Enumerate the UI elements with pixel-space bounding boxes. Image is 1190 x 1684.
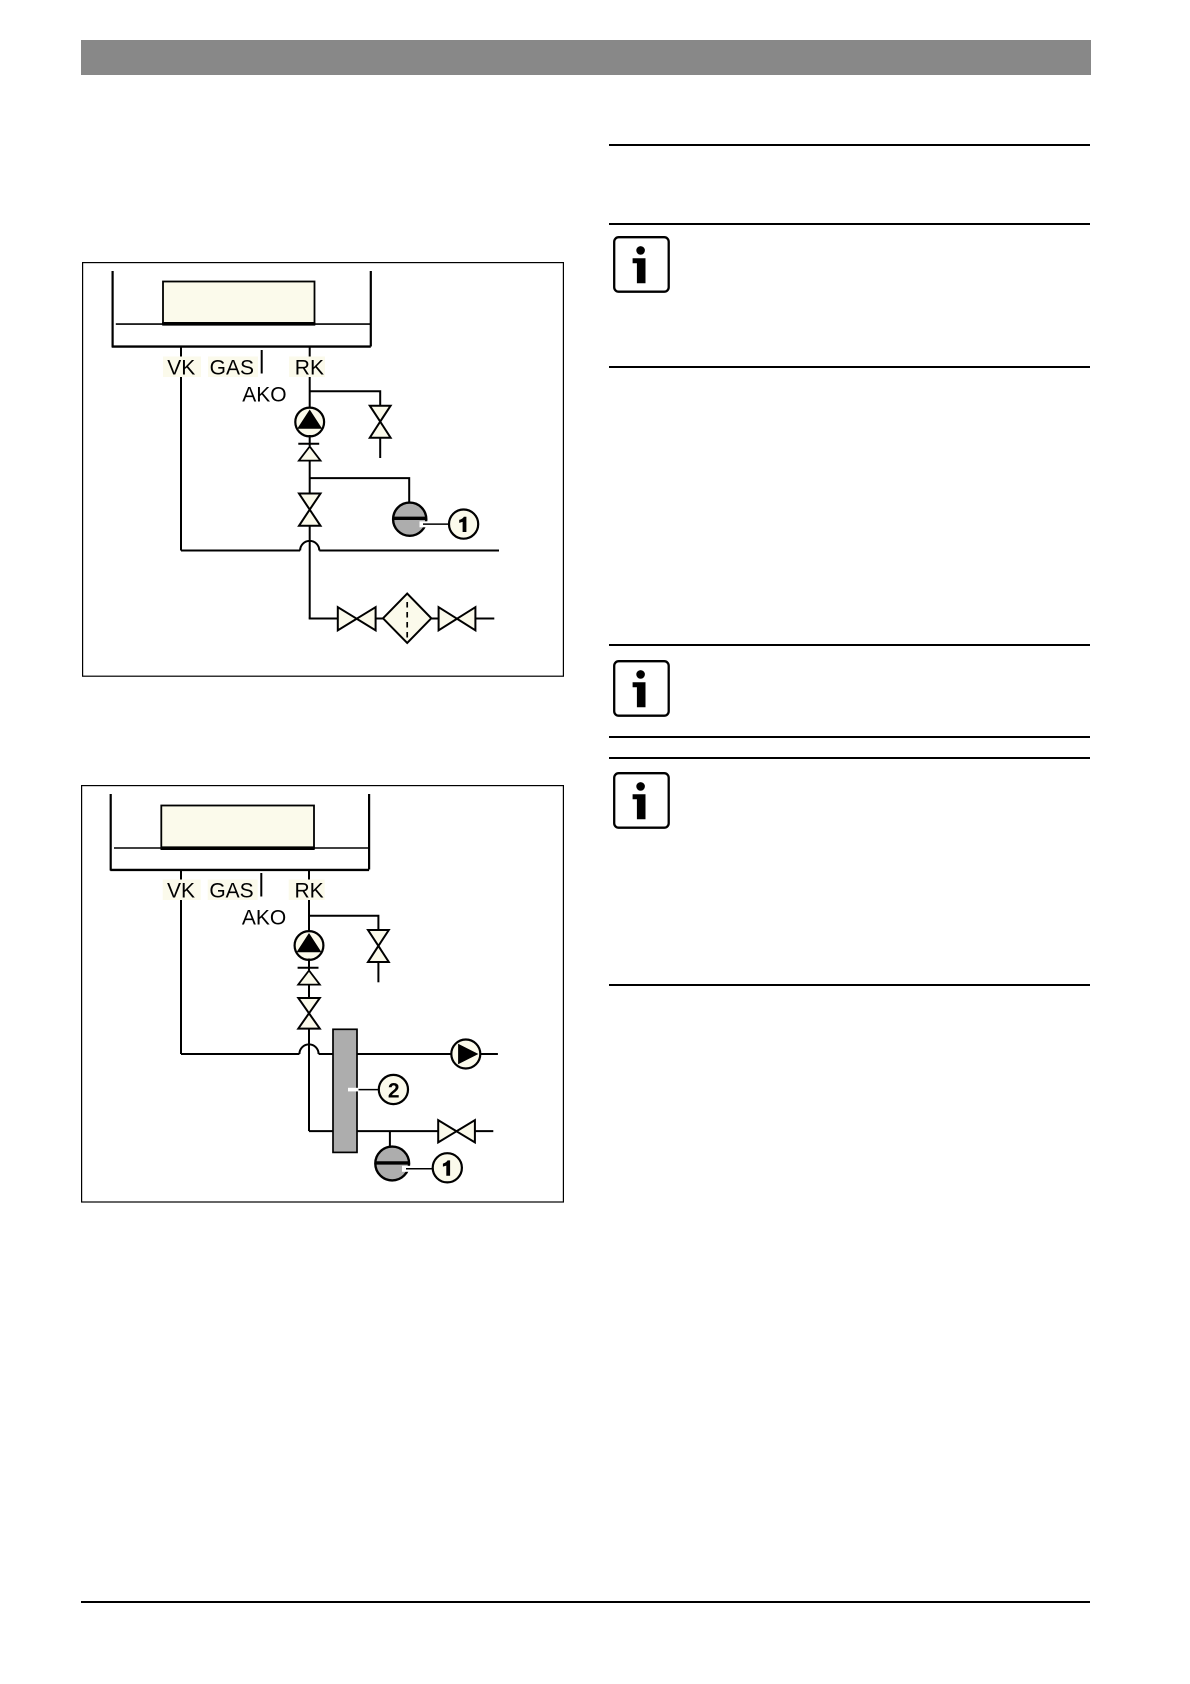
check valve seat	[298, 443, 319, 445]
wire	[431, 618, 438, 620]
valve gas shutoff left	[338, 607, 357, 630]
figure frame	[83, 263, 564, 677]
right column rule 2	[609, 223, 1091, 225]
check valve seat	[298, 967, 319, 969]
figure frame	[82, 786, 564, 1202]
leader white notch	[420, 521, 430, 527]
valve gate RK	[299, 494, 321, 510]
wire header top line left	[181, 1053, 299, 1055]
right column rule 4	[609, 644, 1091, 646]
low-loss header	[333, 1029, 357, 1152]
svg-text:2: 2	[388, 1079, 400, 1102]
pump circulation	[295, 931, 324, 960]
burner block thick base	[161, 846, 315, 850]
svg-text:AKO: AKO	[242, 384, 286, 407]
wire RK pipe middle	[308, 985, 310, 999]
valve bypass (maintenance valve)	[370, 406, 391, 422]
right column rule 6	[609, 757, 1091, 759]
valve heating return	[438, 1120, 456, 1142]
gas filter	[383, 594, 431, 643]
label RK	[289, 357, 325, 378]
burner block	[161, 806, 314, 849]
svg-text:GAS: GAS	[210, 356, 254, 379]
pump circulation	[295, 408, 324, 437]
leader to 1	[423, 523, 450, 525]
diagram 1: boiler with gas line	[82, 262, 564, 677]
label GAS	[208, 357, 258, 378]
right column rule 5	[609, 736, 1091, 738]
boiler right wall	[370, 271, 372, 347]
node GAS stub	[260, 873, 262, 897]
svg-text:GAS: GAS	[209, 879, 253, 902]
wire to pump	[357, 1053, 452, 1055]
check valve	[299, 447, 321, 461]
wire	[475, 618, 494, 620]
wire VK pipe down	[180, 869, 182, 1054]
boiler left wall	[110, 794, 112, 871]
wire expansion branch	[310, 478, 410, 503]
valve bypass (maintenance valve)	[368, 930, 389, 946]
wire RK pipe lower	[309, 526, 311, 619]
leader white notch 2	[348, 1088, 359, 1092]
boiler plate top line	[116, 323, 371, 325]
label GAS	[208, 880, 258, 901]
check valve	[298, 971, 320, 985]
svg-text:VK: VK	[167, 879, 195, 902]
svg-text:RK: RK	[295, 356, 324, 379]
boiler right wall	[368, 794, 370, 870]
wire pump to seat	[308, 959, 310, 971]
diagram 2: boiler with low-loss header	[81, 785, 564, 1203]
wire header bottom line mid	[357, 1130, 438, 1132]
wire bypass stub	[379, 438, 381, 458]
wire RK pipe upper	[309, 346, 311, 409]
boiler plate bottom line	[110, 869, 369, 871]
expansion vessel	[375, 1147, 409, 1181]
wire RK pipe lower	[308, 1029, 310, 1132]
wire RK pipe middle	[309, 461, 311, 494]
wire crossing hop	[299, 1044, 318, 1054]
pump heating circuit	[451, 1040, 480, 1069]
label VK	[163, 880, 201, 901]
header gray bar	[81, 40, 1091, 75]
wire vessel stub	[389, 1131, 391, 1147]
leader to 2	[359, 1089, 381, 1091]
svg-text:RK: RK	[295, 879, 324, 902]
right column rule 1	[609, 144, 1091, 146]
boiler left wall	[111, 271, 113, 348]
burner block	[163, 282, 315, 324]
callout 1	[433, 1153, 462, 1182]
label VK	[163, 357, 201, 378]
wire main horizontal left	[181, 550, 300, 552]
wire	[376, 618, 383, 620]
svg-text:VK: VK	[167, 356, 195, 379]
info icon 2	[613, 660, 670, 717]
info icon 3	[613, 772, 670, 829]
node GAS stub	[261, 350, 263, 374]
callout 2	[379, 1075, 408, 1104]
right column rule 3	[609, 366, 1091, 368]
leader to 1	[406, 1168, 434, 1170]
right column rule 7	[609, 984, 1091, 986]
leader white notch	[402, 1166, 412, 1172]
svg-text:AKO: AKO	[242, 907, 286, 930]
valve gas shutoff right	[439, 607, 457, 630]
boiler plate top line	[114, 847, 369, 849]
wire gas line horizontal	[309, 618, 338, 620]
expansion vessel	[393, 503, 426, 536]
wire	[480, 1053, 498, 1055]
callout 1	[449, 510, 478, 539]
wire VK pipe down	[180, 346, 182, 551]
bottom page rule	[81, 1601, 1090, 1603]
valve gate RK	[298, 998, 320, 1013]
wire pump to seat	[309, 435, 311, 446]
info icon 1	[613, 236, 670, 293]
wire crossing hop	[300, 541, 319, 551]
burner block thick base	[162, 322, 315, 326]
label RK	[289, 880, 325, 901]
wire	[475, 1130, 493, 1132]
wire header bottom line left	[309, 1130, 333, 1132]
wire bypass branch	[309, 916, 378, 931]
wire RK pipe upper	[308, 869, 310, 932]
boiler plate bottom line	[112, 345, 371, 347]
wire bypass branch	[310, 391, 381, 406]
wire bypass stub	[377, 962, 379, 982]
wire header top line right	[319, 1053, 333, 1055]
wire main horizontal right	[319, 550, 499, 552]
